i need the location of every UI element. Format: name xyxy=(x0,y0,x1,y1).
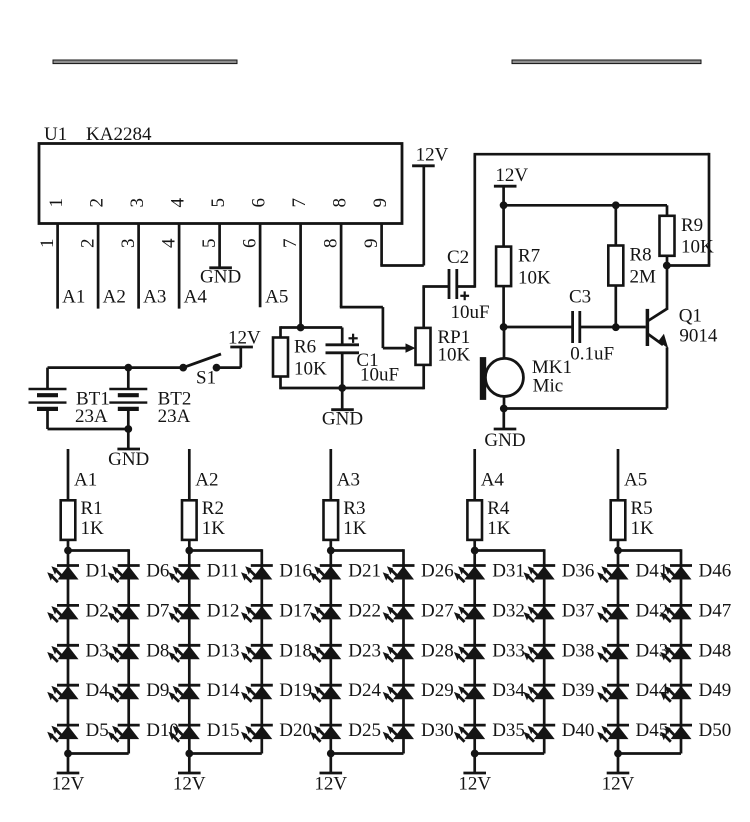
wire R9 top lead xyxy=(666,205,669,216)
LED D33 xyxy=(454,645,486,662)
LED D47 xyxy=(660,605,692,622)
node A5 (column wire) xyxy=(617,449,620,500)
svg-text:D50: D50 xyxy=(699,720,732,741)
LED D19 xyxy=(241,685,273,702)
power 12V terminal (column 4) xyxy=(463,772,486,775)
node A2 (column wire) xyxy=(188,449,191,500)
svg-text:R6: R6 xyxy=(294,337,316,358)
LED D39 xyxy=(523,685,555,702)
node column 1 bottom junction xyxy=(65,750,72,757)
svg-text:R4: R4 xyxy=(487,498,510,519)
node A4 (column wire) xyxy=(473,449,476,500)
svg-text:R8: R8 xyxy=(630,245,652,266)
svg-text:GND: GND xyxy=(322,409,363,430)
svg-text:6: 6 xyxy=(249,198,270,208)
wire supply rail xyxy=(504,204,667,207)
battery BT1 xyxy=(29,368,67,429)
resistor R9 xyxy=(660,216,675,256)
svg-text:9: 9 xyxy=(361,239,382,249)
svg-text:D37: D37 xyxy=(562,600,595,621)
LED D14 xyxy=(169,685,201,702)
wire R5 bottom lead xyxy=(617,540,620,552)
svg-text:D17: D17 xyxy=(279,600,312,621)
resistor R2 xyxy=(182,500,197,540)
svg-text:D25: D25 xyxy=(348,720,381,741)
wire R3 bottom lead xyxy=(329,540,332,552)
resistor R6 xyxy=(273,338,288,377)
svg-text:D38: D38 xyxy=(562,640,595,661)
wire pin 2 stub xyxy=(97,224,100,309)
LED D25 xyxy=(310,725,342,742)
wire R6 bottom lead xyxy=(279,377,282,390)
svg-text:4: 4 xyxy=(168,198,189,208)
svg-text:R5: R5 xyxy=(631,498,653,519)
svg-text:4: 4 xyxy=(159,238,180,248)
LED D11 xyxy=(169,566,201,583)
wire column 3 string 2 xyxy=(402,566,405,754)
wire column 4 top bridge xyxy=(475,549,545,565)
wire column 3 string 1 xyxy=(329,551,332,754)
LED D6 xyxy=(108,566,140,583)
svg-text:10uF: 10uF xyxy=(360,365,399,386)
wire pin 9 route xyxy=(380,166,424,266)
node switch right contact xyxy=(213,364,220,371)
wire column 2 string 1 xyxy=(188,551,191,754)
svg-text:D11: D11 xyxy=(207,561,239,582)
LED D15 xyxy=(169,725,201,742)
svg-text:R9: R9 xyxy=(681,215,703,236)
LED D16 xyxy=(241,566,273,583)
LED D2 xyxy=(47,605,79,622)
svg-text:8: 8 xyxy=(321,239,342,249)
svg-text:D27: D27 xyxy=(421,600,454,621)
svg-text:D18: D18 xyxy=(279,640,312,661)
capacitor C1 xyxy=(326,345,360,388)
svg-text:D30: D30 xyxy=(421,720,454,741)
svg-text:A5: A5 xyxy=(624,470,647,491)
LED D38 xyxy=(523,645,555,662)
wire column 2 12V lead xyxy=(188,754,191,774)
wire C2 left xyxy=(422,285,449,288)
svg-text:D26: D26 xyxy=(421,561,454,582)
svg-text:10K: 10K xyxy=(681,237,714,258)
LED D17 xyxy=(241,605,273,622)
node A1 (column wire) xyxy=(67,449,70,500)
node column 5 bottom junction xyxy=(615,750,622,757)
ground (mic) xyxy=(484,409,525,452)
wire pin 6 stub xyxy=(259,224,262,308)
LED D3 xyxy=(47,645,79,662)
power 12V terminal (column 2) xyxy=(178,772,201,775)
LED D18 xyxy=(241,645,273,662)
wire column 2 bottom bridge xyxy=(189,752,261,755)
svg-text:12V: 12V xyxy=(458,774,491,795)
node switch left contact xyxy=(180,364,187,371)
svg-text:D46: D46 xyxy=(699,561,732,582)
LED D26 xyxy=(383,566,415,583)
svg-text:KA2284: KA2284 xyxy=(86,124,152,145)
svg-text:D8: D8 xyxy=(146,640,169,661)
svg-text:D35: D35 xyxy=(492,720,525,741)
svg-text:10K: 10K xyxy=(294,359,327,380)
svg-text:1K: 1K xyxy=(631,518,655,539)
wire battery top rail xyxy=(48,366,184,369)
svg-text:5: 5 xyxy=(208,198,229,208)
LED D21 xyxy=(310,566,342,583)
svg-text:12V: 12V xyxy=(416,145,449,166)
svg-text:D16: D16 xyxy=(279,561,312,582)
transistor Q1 base bar xyxy=(646,309,650,346)
svg-text:R2: R2 xyxy=(202,498,224,519)
wire column 5 bottom bridge xyxy=(618,752,681,755)
wire column 5 string 2 xyxy=(680,566,683,754)
LED D32 xyxy=(454,605,486,622)
wire emitter to mic xyxy=(502,407,667,410)
svg-text:D36: D36 xyxy=(562,561,595,582)
svg-text:S1: S1 xyxy=(196,368,216,389)
power 12V terminal (column 5) xyxy=(607,772,630,775)
LED D7 xyxy=(108,605,140,622)
svg-text:D33: D33 xyxy=(492,640,525,661)
resistor R7 xyxy=(496,247,511,287)
LED D8 xyxy=(108,645,140,662)
node column 5 split xyxy=(615,547,622,554)
node column 1 split xyxy=(65,547,72,554)
resistor R3 xyxy=(324,500,339,540)
node column 4 bottom junction xyxy=(471,750,478,757)
battery BT2 xyxy=(109,368,147,429)
wire column 1 bottom bridge xyxy=(68,752,129,755)
wire pin 1 stub xyxy=(56,224,59,309)
ground (C1) xyxy=(322,388,363,430)
node column 2 bottom junction xyxy=(186,750,193,757)
node column 3 bottom junction xyxy=(327,750,334,757)
svg-text:R3: R3 xyxy=(343,498,365,519)
LED D10 xyxy=(108,725,140,742)
LED D36 xyxy=(523,566,555,583)
wire column 4 12V lead xyxy=(473,754,476,774)
svg-text:A2: A2 xyxy=(195,470,218,491)
wire R7 top lead xyxy=(502,205,505,246)
node BT2 top junction xyxy=(125,364,132,371)
wire R9 bottom lead xyxy=(666,256,669,266)
svg-text:6: 6 xyxy=(240,239,261,249)
wire R7 bottom lead xyxy=(502,286,505,327)
wire column 4 bottom bridge xyxy=(475,752,545,755)
power 12V terminal (pin 9) xyxy=(412,164,435,167)
node C3-R8 junction xyxy=(612,324,619,331)
svg-text:1K: 1K xyxy=(487,518,511,539)
wire C2 right xyxy=(457,154,475,288)
wire RP1 top lead xyxy=(422,287,425,328)
svg-text:10K: 10K xyxy=(438,345,471,366)
node column 2 split xyxy=(186,547,193,554)
wire pin 5 stub xyxy=(218,224,221,267)
LED D30 xyxy=(383,725,415,742)
svg-text:12V: 12V xyxy=(173,774,206,795)
switch S1 lever xyxy=(183,354,221,368)
LED D35 xyxy=(454,725,486,742)
resistor R4 xyxy=(467,500,482,540)
svg-text:1: 1 xyxy=(37,239,58,249)
wire column 3 bottom bridge xyxy=(331,752,404,755)
wire column 4 string 1 xyxy=(473,551,476,754)
svg-text:GND: GND xyxy=(200,266,241,287)
LED D48 xyxy=(660,645,692,662)
power 12V terminal (switch) xyxy=(230,346,253,349)
svg-text:D31: D31 xyxy=(492,561,525,582)
svg-text:D28: D28 xyxy=(421,640,454,661)
LED D41 xyxy=(597,566,629,583)
wire column 1 top bridge xyxy=(68,549,129,565)
svg-text:Q1: Q1 xyxy=(679,306,702,327)
LED D34 xyxy=(454,685,486,702)
label C2 plus xyxy=(460,291,469,300)
wire battery bottom rail xyxy=(48,428,129,431)
svg-text:12V: 12V xyxy=(602,774,635,795)
wire R6-C1 top xyxy=(281,326,343,329)
node column 3 split xyxy=(327,547,334,554)
svg-text:A3: A3 xyxy=(337,470,360,491)
svg-text:9014: 9014 xyxy=(679,326,718,347)
wire column 3 top bridge xyxy=(331,549,404,565)
LED D5 xyxy=(47,725,79,742)
wire R6 top lead xyxy=(279,326,282,337)
svg-text:3: 3 xyxy=(127,198,148,208)
svg-text:D22: D22 xyxy=(348,600,381,621)
wire pin 3 stub xyxy=(137,224,140,309)
wire column 5 string 1 xyxy=(617,551,620,754)
svg-text:D19: D19 xyxy=(279,680,312,701)
LED D9 xyxy=(108,685,140,702)
wire column 2 top bridge xyxy=(189,549,261,565)
svg-text:12V: 12V xyxy=(314,774,347,795)
svg-text:2M: 2M xyxy=(630,267,657,288)
node supply junction xyxy=(500,202,507,209)
wire column 2 string 2 xyxy=(260,566,263,754)
svg-text:D4: D4 xyxy=(86,680,110,701)
wire 12V to switch xyxy=(217,347,241,368)
svg-text:10uF: 10uF xyxy=(451,302,490,323)
svg-text:D32: D32 xyxy=(492,600,525,621)
svg-text:A1: A1 xyxy=(62,287,85,308)
svg-text:D9: D9 xyxy=(146,680,169,701)
svg-text:D23: D23 xyxy=(348,640,381,661)
wire mic top lead xyxy=(503,327,506,359)
wire R1 bottom lead xyxy=(67,540,70,552)
svg-text:A4: A4 xyxy=(184,287,208,308)
svg-text:1K: 1K xyxy=(81,518,105,539)
node mic bottom junction xyxy=(500,405,507,412)
op-amp U1 KA2284 IC body xyxy=(39,144,402,224)
svg-text:D20: D20 xyxy=(279,720,312,741)
node pin7 junction xyxy=(297,324,304,331)
wire R8 bottom lead xyxy=(614,286,617,328)
LED D31 xyxy=(454,566,486,583)
svg-text:D2: D2 xyxy=(86,600,109,621)
svg-text:D29: D29 xyxy=(421,680,454,701)
node C1 bottom junction xyxy=(339,385,346,392)
node column 4 split xyxy=(471,547,478,554)
svg-text:A3: A3 xyxy=(143,287,166,308)
svg-text:D1: D1 xyxy=(86,561,109,582)
svg-text:C3: C3 xyxy=(569,287,591,308)
LED D43 xyxy=(597,645,629,662)
LED D45 xyxy=(597,725,629,742)
svg-text:A1: A1 xyxy=(74,470,97,491)
LED D23 xyxy=(310,645,342,662)
svg-text:D48: D48 xyxy=(699,640,732,661)
svg-text:12V: 12V xyxy=(495,165,528,186)
ground (battery) xyxy=(108,429,149,470)
LED D1 xyxy=(47,566,79,583)
power 12V terminal (column 3) xyxy=(320,772,343,775)
wire R8 top lead xyxy=(614,205,617,245)
LED D49 xyxy=(660,685,692,702)
wire pin 4 stub xyxy=(178,224,181,309)
ground (pin 5) xyxy=(200,266,241,287)
svg-text:R7: R7 xyxy=(518,246,540,267)
svg-text:3: 3 xyxy=(118,239,139,249)
LED D37 xyxy=(523,605,555,622)
LED D29 xyxy=(383,685,415,702)
svg-text:0.1uF: 0.1uF xyxy=(570,344,614,365)
resistor R1 xyxy=(61,500,76,540)
svg-text:GND: GND xyxy=(108,449,149,470)
LED D28 xyxy=(383,645,415,662)
capacitor C1 top lead xyxy=(341,328,344,345)
svg-text:1K: 1K xyxy=(202,518,226,539)
svg-text:D6: D6 xyxy=(146,561,169,582)
svg-text:D13: D13 xyxy=(207,640,240,661)
svg-text:D12: D12 xyxy=(207,600,240,621)
svg-text:D34: D34 xyxy=(492,680,525,701)
wire 12V drop xyxy=(502,186,505,205)
transistor Q1 collector xyxy=(648,264,668,321)
svg-text:7: 7 xyxy=(280,239,301,249)
svg-text:C2: C2 xyxy=(447,247,469,268)
LED D50 xyxy=(660,725,692,742)
svg-text:D5: D5 xyxy=(86,720,109,741)
LED D12 xyxy=(169,605,201,622)
wire bottom R6-RP1 xyxy=(281,387,424,390)
capacitor C3 xyxy=(573,311,580,343)
svg-text:A2: A2 xyxy=(103,287,126,308)
svg-text:A5: A5 xyxy=(265,287,288,308)
wire column 1 string 1 xyxy=(67,551,70,754)
svg-text:2: 2 xyxy=(78,239,99,249)
resistor R8 xyxy=(608,246,623,286)
transistor Q1 emitter xyxy=(648,334,668,409)
LED D13 xyxy=(169,645,201,662)
LED D46 xyxy=(660,566,692,583)
label C1 plus xyxy=(349,334,358,343)
wire base right xyxy=(580,326,646,329)
LED D40 xyxy=(523,725,555,742)
LED D20 xyxy=(241,725,273,742)
wire pin 8 route xyxy=(340,224,406,349)
microphone MK1 xyxy=(480,358,523,400)
svg-text:D47: D47 xyxy=(699,600,732,621)
svg-text:10K: 10K xyxy=(518,268,551,289)
power 12V terminal (amp) xyxy=(494,185,517,188)
wire base left xyxy=(504,326,573,329)
svg-text:7: 7 xyxy=(289,198,310,208)
svg-text:1K: 1K xyxy=(343,518,367,539)
capacitor C2 xyxy=(449,269,457,299)
potentiometer RP1 wiper arrow xyxy=(406,343,416,352)
svg-text:D40: D40 xyxy=(562,720,595,741)
wire column 4 string 2 xyxy=(543,566,546,754)
svg-text:A4: A4 xyxy=(481,470,505,491)
svg-text:U1: U1 xyxy=(44,124,67,145)
LED D27 xyxy=(383,605,415,622)
svg-text:GND: GND xyxy=(484,430,525,451)
svg-text:23A: 23A xyxy=(75,406,108,427)
svg-text:D24: D24 xyxy=(348,680,381,701)
wire RP1 bottom lead xyxy=(422,365,425,389)
resistor R5 xyxy=(611,500,626,540)
node A3 (column wire) xyxy=(329,449,332,500)
potentiometer RP1 body xyxy=(416,328,431,365)
wire column 5 top bridge xyxy=(618,549,681,565)
svg-text:D21: D21 xyxy=(348,561,381,582)
node R9 bottom junction xyxy=(663,262,670,269)
node battery bottom junction xyxy=(125,426,132,433)
wire top rail xyxy=(474,153,711,266)
wire column 3 12V lead xyxy=(329,754,332,774)
svg-text:D15: D15 xyxy=(207,720,240,741)
svg-text:23A: 23A xyxy=(158,406,191,427)
wire mic bottom lead xyxy=(503,396,506,408)
wire pin 7 stub xyxy=(299,224,302,328)
svg-text:D39: D39 xyxy=(562,680,595,701)
LED D22 xyxy=(310,605,342,622)
node R7 bottom junction xyxy=(500,324,507,331)
power 12V terminal (column 1) xyxy=(57,772,80,775)
svg-text:D14: D14 xyxy=(207,680,240,701)
wire R2 bottom lead xyxy=(188,540,191,552)
svg-text:1: 1 xyxy=(46,198,67,208)
svg-text:Mic: Mic xyxy=(533,375,564,396)
LED D4 xyxy=(47,685,79,702)
svg-text:D3: D3 xyxy=(86,640,109,661)
svg-text:12V: 12V xyxy=(228,328,261,349)
wire column 1 12V lead xyxy=(67,754,70,774)
svg-text:D49: D49 xyxy=(699,680,732,701)
wire R4 bottom lead xyxy=(473,540,476,552)
LED D24 xyxy=(310,685,342,702)
LED D42 xyxy=(597,605,629,622)
svg-text:2: 2 xyxy=(87,198,108,208)
node R8 top junction xyxy=(612,202,619,209)
svg-text:R1: R1 xyxy=(81,498,103,519)
svg-text:D7: D7 xyxy=(146,600,169,621)
wire column 5 12V lead xyxy=(617,754,620,774)
svg-text:12V: 12V xyxy=(52,774,85,795)
wire column 1 string 2 xyxy=(127,566,130,754)
LED D44 xyxy=(597,685,629,702)
svg-text:9: 9 xyxy=(370,198,391,208)
svg-text:5: 5 xyxy=(199,239,220,249)
svg-text:8: 8 xyxy=(330,198,351,208)
